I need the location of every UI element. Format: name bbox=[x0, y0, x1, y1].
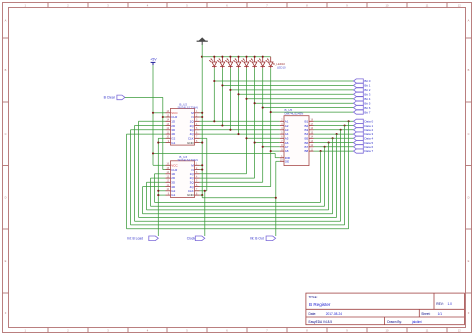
junction LED D6 at rail bbox=[254, 56, 256, 58]
wire CLK stub B_U2 bbox=[200, 137, 207, 139]
pin 7 A6 of B_U5 bbox=[280, 141, 289, 145]
svg-text:1/1: 1/1 bbox=[438, 312, 443, 316]
svg-text:+5V: +5V bbox=[150, 58, 157, 62]
wire bit4 vertical bbox=[246, 68, 248, 174]
svg-text:GND: GND bbox=[187, 193, 195, 197]
wire Data 6 right vertical drop bbox=[324, 147, 326, 206]
junction bit0 at port wire bbox=[213, 80, 215, 82]
svg-text:E: E bbox=[5, 259, 7, 263]
wire bit7 to Bit port bbox=[271, 111, 354, 113]
pin 1 DIR of B_U5 bbox=[280, 156, 291, 160]
net port Bit 2 bbox=[354, 88, 371, 92]
LED D4 bbox=[233, 57, 240, 68]
pin 13 2D of B_U3 bbox=[166, 176, 176, 180]
wire bit2 vertical bbox=[229, 68, 231, 130]
LED D5 bbox=[241, 57, 248, 68]
svg-text:SN74LS173AN: SN74LS173AN bbox=[178, 158, 198, 162]
junction LED D2 at rail bbox=[221, 56, 223, 58]
wire G2 stub B_U2 bbox=[158, 137, 165, 139]
pin 3 A2 of B_U5 bbox=[280, 124, 289, 128]
wire bit7 vertical bbox=[270, 68, 272, 186]
junction OE line bbox=[275, 197, 277, 199]
svg-text:G1: G1 bbox=[171, 193, 175, 197]
pin 2 A1 of B_U5 bbox=[280, 120, 289, 124]
label LED10 bbox=[273, 62, 286, 69]
junction bit4 at port wire bbox=[245, 98, 247, 100]
junction load G2 B_U3 bbox=[157, 190, 159, 192]
junction load G1 B_U2 bbox=[157, 142, 159, 144]
junction bit0 at Q wire bbox=[213, 120, 215, 122]
wire bit1 to Bit port bbox=[222, 84, 353, 86]
svg-text:D: D bbox=[468, 195, 470, 199]
wire B6 to Data 5 port bbox=[314, 142, 354, 144]
wire ground stub B_U2 N bbox=[200, 116, 203, 118]
wire B1 to Data 0 port bbox=[314, 120, 354, 122]
wire B_U2 3D entry bbox=[131, 129, 166, 131]
junction LED D4 at rail bbox=[237, 56, 239, 58]
pin 14 B5 of B_U5 bbox=[305, 137, 314, 141]
wire G1 stub B_U2 bbox=[158, 142, 165, 144]
wire Data 0 right vertical drop bbox=[348, 121, 350, 228]
junction bit2 at port wire bbox=[229, 89, 231, 91]
svg-text:B Register: B Register bbox=[309, 302, 331, 307]
pin 13 B6 of B_U5 bbox=[305, 141, 314, 145]
pin 5 3Q of B_U3 bbox=[190, 181, 200, 185]
junction +5V at B_U2 VCC bbox=[152, 112, 154, 114]
wire B Clear horizontal bbox=[125, 96, 163, 98]
pin 15 CLR of B_U2 bbox=[166, 115, 179, 119]
net port Clock bbox=[187, 236, 205, 241]
wire Data 5 right vertical drop bbox=[328, 143, 330, 210]
net port Data 1 bbox=[354, 124, 374, 128]
svg-text:A: A bbox=[5, 18, 7, 22]
junction Data 6 drop bbox=[324, 146, 326, 148]
IC B_U2 74LS173 body bbox=[171, 108, 195, 145]
svg-text:A: A bbox=[468, 18, 470, 22]
junction bit6 at A wire bbox=[262, 146, 264, 148]
wire Int B Out vertical to OE bbox=[275, 161, 277, 236]
wire A5 from bit4 vertical bbox=[247, 137, 280, 139]
pin 17 B2 of B_U5 bbox=[305, 124, 314, 128]
svg-text:E: E bbox=[468, 259, 470, 263]
svg-text:Bit 2: Bit 2 bbox=[364, 88, 370, 92]
net port Bit 0 bbox=[354, 79, 371, 83]
pin 14 1D of B_U2 bbox=[166, 120, 176, 124]
wire G1 stub B_U3 bbox=[158, 194, 165, 196]
wire bit5 to Bit port bbox=[255, 102, 354, 104]
wire CLK stub B_U3 bbox=[200, 190, 207, 192]
pin 14 1D of B_U3 bbox=[166, 172, 176, 176]
pin 11 4D of B_U2 bbox=[166, 132, 176, 136]
svg-text:1.0: 1.0 bbox=[448, 302, 453, 306]
svg-text:D: D bbox=[5, 195, 7, 199]
junction +5V feed bbox=[152, 152, 154, 154]
wire B7 to Data 6 port bbox=[314, 146, 354, 148]
junction Data 1 drop bbox=[344, 124, 346, 126]
pin 10 G2 of B_U2 bbox=[166, 137, 176, 141]
pin 12 B7 of B_U5 bbox=[305, 145, 314, 149]
pin 7 CLK of B_U3 bbox=[188, 189, 200, 193]
wire VCC stub B_U2 bbox=[153, 112, 166, 114]
wire data bus left vertical 7 bbox=[126, 134, 128, 229]
net port Bit 1 bbox=[354, 83, 371, 87]
net port Data 7 bbox=[354, 149, 374, 153]
svg-text:Bit 7: Bit 7 bbox=[364, 110, 370, 114]
pin 15 B4 of B_U5 bbox=[305, 132, 314, 136]
svg-text:GND: GND bbox=[187, 141, 195, 145]
wire B2 to Data 1 port bbox=[314, 125, 354, 127]
wire data bus left vertical 4 bbox=[138, 121, 140, 217]
svg-text:Drawn By:: Drawn By: bbox=[387, 320, 402, 324]
pin 8 GND of B_U2 bbox=[187, 141, 199, 145]
junction bit1 at Q wire bbox=[221, 124, 223, 126]
svg-text:B Clear: B Clear bbox=[104, 96, 116, 100]
pin 2 N of B_U3 bbox=[192, 168, 200, 172]
pin 8 A7 of B_U5 bbox=[280, 145, 289, 149]
svg-text:C: C bbox=[5, 132, 7, 136]
wire bit0 vertical bbox=[213, 68, 215, 121]
wire DIR ground horizontal bbox=[202, 197, 276, 199]
pin 15 CLR of B_U3 bbox=[166, 168, 179, 172]
svg-text:Int: B Out: Int: B Out bbox=[250, 237, 264, 241]
LED D7 bbox=[258, 57, 265, 68]
svg-text:jakdimi: jakdimi bbox=[411, 320, 422, 324]
pin 12 3D of B_U2 bbox=[166, 128, 176, 132]
wire CLR stub B_U3 bbox=[163, 169, 166, 171]
svg-text:B: B bbox=[468, 68, 470, 72]
pin 9 A8 of B_U5 bbox=[280, 149, 289, 153]
svg-text:A8: A8 bbox=[285, 149, 289, 153]
wire B_U2 2D entry bbox=[135, 125, 166, 127]
svg-text:OE: OE bbox=[285, 160, 289, 164]
wire data bus left vertical 5 bbox=[134, 126, 136, 222]
svg-text:EasyEDA V4.8.5: EasyEDA V4.8.5 bbox=[309, 320, 333, 324]
junction Data 2 drop bbox=[340, 129, 342, 131]
wire +5V vertical to VCC pins bbox=[152, 65, 154, 165]
wire data bus bottom row 3 bbox=[143, 213, 333, 215]
wire B_U3 2D entry bbox=[151, 177, 166, 179]
pin 1 M of B_U3 bbox=[191, 164, 199, 168]
svg-text:TITLE:: TITLE: bbox=[309, 295, 318, 299]
pin 12 3D of B_U3 bbox=[166, 181, 176, 185]
svg-text:Data 7: Data 7 bbox=[364, 149, 373, 153]
net port Bit 4 bbox=[354, 97, 371, 101]
pin 6 4Q of B_U3 bbox=[190, 185, 200, 189]
net port Int: B Load bbox=[127, 236, 158, 241]
junction Data 3 drop bbox=[336, 133, 338, 135]
wire DIR drop bbox=[274, 153, 276, 157]
wire bit2 to Bit port bbox=[230, 89, 353, 91]
svg-text:Bit 4: Bit 4 bbox=[364, 97, 370, 101]
wire B_U2 1D entry bbox=[139, 120, 166, 122]
wire B_U3 1D entry bbox=[155, 173, 166, 175]
wire B_U2 3Q to A3 bbox=[200, 129, 280, 131]
junction Data 7 drop bbox=[320, 150, 322, 152]
svg-text:Bit 1: Bit 1 bbox=[364, 84, 370, 88]
junction ground at rail bbox=[201, 56, 203, 58]
wire +5V feed to DIR bbox=[153, 152, 275, 154]
wire B_U2 4Q to A4 bbox=[200, 133, 280, 135]
wire data bus bottom row 4 bbox=[139, 216, 337, 218]
junction bit1 at port wire bbox=[221, 84, 223, 86]
wire Data 3 right vertical drop bbox=[336, 134, 338, 217]
junction bit3 at Q wire bbox=[237, 133, 239, 135]
junction bit5 at port wire bbox=[254, 102, 256, 104]
svg-text:Bit 6: Bit 6 bbox=[364, 106, 370, 110]
LED D8 bbox=[266, 57, 273, 68]
wire data bus left vertical 1 bbox=[150, 178, 152, 206]
junction load G1 B_U3 bbox=[157, 194, 159, 196]
LED D1 bbox=[209, 57, 216, 68]
frame column ticks and numbers bbox=[47, 3, 49, 8]
pin 3 1Q of B_U3 bbox=[190, 172, 200, 176]
pin 16 VCC of B_U3 bbox=[166, 164, 179, 168]
wire B8 to Data 7 port bbox=[314, 150, 354, 152]
svg-text:B8: B8 bbox=[305, 149, 309, 153]
wire Clock riser to B_U2 bbox=[206, 138, 208, 191]
pin 1 M of B_U2 bbox=[191, 111, 199, 115]
wire data bus bottom row 5 bbox=[135, 220, 341, 222]
junction Data 4 drop bbox=[332, 137, 334, 139]
pin 5 A4 of B_U5 bbox=[280, 132, 289, 136]
wire B_U3 3Q to bit6 vertical bbox=[200, 181, 263, 183]
pin 4 2Q of B_U3 bbox=[190, 176, 200, 180]
net port Data 5 bbox=[354, 141, 374, 145]
LED D2 bbox=[217, 57, 224, 68]
net port Bit 5 bbox=[354, 101, 371, 105]
LED D6 bbox=[250, 57, 257, 68]
svg-text:Bit 3: Bit 3 bbox=[364, 93, 370, 97]
wire data bus bottom row 7 bbox=[127, 228, 349, 230]
wire data bus left vertical 0 bbox=[154, 174, 156, 203]
wire data bus left vertical 2 bbox=[146, 182, 148, 210]
IC B_U3 74LS173 body bbox=[171, 161, 195, 198]
wire bit4 to Bit port bbox=[247, 98, 354, 100]
pin 8 GND of B_U3 bbox=[187, 193, 199, 197]
wire Data 4 right vertical drop bbox=[332, 138, 334, 213]
wire ground stub B_U3 M bbox=[200, 164, 203, 166]
wire bit3 to Bit port bbox=[239, 93, 354, 95]
wire bit6 vertical bbox=[262, 68, 264, 182]
pin 9 G1 of B_U3 bbox=[166, 193, 176, 197]
wire CLR stub B_U2 bbox=[163, 116, 166, 118]
junction bit3 at port wire bbox=[237, 93, 239, 95]
pin 7 CLK of B_U2 bbox=[188, 137, 200, 141]
wire Data 1 right vertical drop bbox=[344, 126, 346, 225]
wire data bus bottom row 2 bbox=[147, 209, 329, 211]
ground symbol GND1 bbox=[197, 37, 208, 45]
svg-text:DM74LS245N: DM74LS245N bbox=[285, 111, 304, 115]
svg-text:Sheet:: Sheet: bbox=[421, 312, 430, 316]
wire bit3 vertical bbox=[238, 68, 240, 134]
LED D3 bbox=[225, 57, 232, 68]
wire Data 2 right vertical drop bbox=[340, 130, 342, 221]
wire ground stub B_U3 GND bbox=[200, 194, 203, 196]
net port Data 0 bbox=[354, 119, 374, 123]
wire B3 to Data 2 port bbox=[314, 129, 354, 131]
wire ground stub B_U2 M bbox=[200, 112, 203, 114]
wire ground stub B_U2 GND bbox=[200, 142, 203, 144]
junction bit7 at port wire bbox=[270, 111, 272, 113]
svg-text:Date:: Date: bbox=[309, 312, 317, 316]
wire Int B Load vertical bbox=[157, 138, 159, 236]
svg-text:Bit 0: Bit 0 bbox=[364, 79, 370, 83]
wire data bus bottom row 1 bbox=[151, 205, 325, 207]
svg-text:B: B bbox=[5, 68, 7, 72]
pin 16 VCC of B_U2 bbox=[166, 111, 179, 115]
junction Data 5 drop bbox=[328, 142, 330, 144]
wire B_U3 4D entry bbox=[143, 186, 166, 188]
wire A8 from bit7 vertical bbox=[271, 150, 280, 152]
wire ground symbol to LED rail bbox=[201, 45, 203, 57]
wire bit6 to Bit port bbox=[263, 107, 354, 109]
wire Clock vertical from port bbox=[204, 191, 206, 236]
junction LED D5 at rail bbox=[245, 56, 247, 58]
wire B_U3 3D entry bbox=[147, 181, 166, 183]
wire LED ground rail bbox=[202, 56, 271, 58]
wire bit1 vertical bbox=[221, 68, 223, 125]
pin 16 B3 of B_U5 bbox=[305, 128, 314, 132]
wire ground stub B_U3 N bbox=[200, 169, 203, 171]
pin 11 B8 of B_U5 bbox=[305, 149, 314, 153]
wire ground net vertical bbox=[201, 57, 203, 195]
junction bit6 at port wire bbox=[262, 107, 264, 109]
net port Data 3 bbox=[354, 132, 374, 136]
wire data bus bottom row 6 bbox=[131, 224, 345, 226]
wire A7 from bit6 vertical bbox=[263, 146, 280, 148]
svg-text:G1: G1 bbox=[171, 141, 175, 145]
wire data bus bottom row 0 bbox=[155, 201, 321, 203]
pin 10 G2 of B_U3 bbox=[166, 189, 176, 193]
frame row ticks and letters bbox=[3, 37, 9, 39]
title block bbox=[306, 293, 465, 325]
wire B Clear vertical bbox=[162, 97, 164, 169]
junction Clock at B_U3 CLK bbox=[204, 190, 206, 192]
net port Data 2 bbox=[354, 128, 374, 132]
wire B4 to Data 3 port bbox=[314, 133, 354, 135]
net port Bit 7 bbox=[354, 110, 371, 114]
svg-text:LED10: LED10 bbox=[277, 65, 286, 69]
junction Data 0 drop bbox=[348, 120, 350, 122]
wire OE pin link bbox=[276, 160, 280, 162]
wire data bus left vertical 3 bbox=[142, 187, 144, 214]
pin 2 N of B_U2 bbox=[192, 115, 200, 119]
net port Data 4 bbox=[354, 136, 374, 140]
wire G2 stub B_U3 bbox=[158, 190, 165, 192]
pin 11 4D of B_U3 bbox=[166, 185, 176, 189]
svg-text:C: C bbox=[468, 132, 470, 136]
wire bit5 vertical bbox=[254, 68, 256, 178]
net port B Clear bbox=[104, 95, 125, 100]
net port Int: B Out bbox=[250, 236, 276, 241]
net port Data 6 bbox=[354, 145, 374, 149]
wire VCC stub B_U3 bbox=[153, 164, 166, 166]
pin 18 B1 of B_U5 bbox=[305, 120, 314, 124]
svg-text:Int: B Load: Int: B Load bbox=[127, 237, 143, 241]
junction bit4 at A wire bbox=[245, 137, 247, 139]
junction LED D3 at rail bbox=[229, 56, 231, 58]
junction bit2 at Q wire bbox=[229, 129, 231, 131]
pin 6 4Q of B_U2 bbox=[190, 132, 200, 136]
junction LED D1 at rail bbox=[213, 56, 215, 58]
wire B_U3 2Q to bit5 vertical bbox=[200, 177, 255, 179]
wire A6 from bit5 vertical bbox=[255, 142, 280, 144]
wire data bus left vertical 6 bbox=[130, 130, 132, 225]
net port Bit 3 bbox=[354, 92, 371, 96]
svg-text:REV:: REV: bbox=[436, 302, 443, 306]
pin 6 A5 of B_U5 bbox=[280, 137, 289, 141]
svg-text:Clock: Clock bbox=[187, 237, 196, 241]
junction B Clear at B_U2 CLR bbox=[162, 116, 164, 118]
svg-text:Bit 5: Bit 5 bbox=[364, 101, 370, 105]
pin 3 1Q of B_U2 bbox=[190, 120, 200, 124]
wire B_U2 4D entry bbox=[127, 133, 166, 135]
wire B_U3 4Q to bit7 vertical bbox=[200, 186, 271, 188]
net port Bit 6 bbox=[354, 106, 371, 110]
wire B_U2 2Q to A2 bbox=[200, 125, 280, 127]
pin 13 2D of B_U2 bbox=[166, 124, 176, 128]
IC B_U5 74LS245 body bbox=[284, 116, 309, 166]
junction bit5 at A wire bbox=[254, 142, 256, 144]
wire B5 to Data 4 port bbox=[314, 137, 354, 139]
junction LED D7 at rail bbox=[262, 56, 264, 58]
svg-text:2017-08-24: 2017-08-24 bbox=[326, 312, 343, 316]
wire ground extension to OE line bbox=[201, 195, 203, 198]
wire B_U2 1Q to A1 bbox=[200, 120, 280, 122]
wire B_U3 1Q to bit4 vertical bbox=[200, 173, 247, 175]
pin 9 G1 of B_U2 bbox=[166, 141, 176, 145]
wire bit0 to Bit port bbox=[214, 80, 353, 82]
junction bit7 at A wire bbox=[270, 150, 272, 152]
pin 5 3Q of B_U2 bbox=[190, 128, 200, 132]
pin 4 2Q of B_U2 bbox=[190, 124, 200, 128]
wire Data 7 right vertical drop bbox=[320, 151, 322, 202]
pin 4 A3 of B_U5 bbox=[280, 128, 289, 132]
svg-text:SN74LS173AN: SN74LS173AN bbox=[178, 106, 198, 110]
pin 19 OE of B_U5 bbox=[280, 160, 289, 164]
